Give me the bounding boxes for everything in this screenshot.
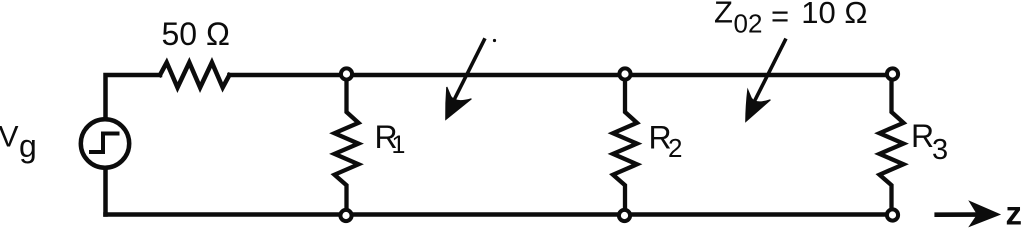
resistor 50 ohm (series source resistor) xyxy=(160,63,229,88)
node top R1 xyxy=(341,68,352,79)
svg-text:02: 02 xyxy=(734,8,763,38)
wire bottom rail xyxy=(106,212,886,217)
resistor R2 xyxy=(613,75,637,216)
node top R2 xyxy=(619,68,630,79)
resistor R1 xyxy=(335,75,359,216)
wire top rail right segment xyxy=(229,73,886,78)
svg-text:V: V xyxy=(0,120,19,153)
node bottom R2 xyxy=(619,210,630,221)
svg-text:z: z xyxy=(1006,195,1023,230)
svg-text:=: = xyxy=(771,0,789,33)
svg-text:g: g xyxy=(19,128,37,164)
resistor R3 xyxy=(880,75,904,216)
source step symbol xyxy=(89,134,120,153)
node bottom R3 xyxy=(887,209,898,220)
arrow to line section 1 xyxy=(446,38,485,119)
svg-text:2: 2 xyxy=(668,133,682,163)
z axis arrow xyxy=(934,201,999,226)
svg-text:50 Ω: 50 Ω xyxy=(162,16,230,52)
svg-text:R: R xyxy=(911,118,934,154)
svg-text:Z: Z xyxy=(714,0,733,30)
svg-text:10 Ω: 10 Ω xyxy=(801,0,867,30)
node top R3 xyxy=(887,68,898,79)
node bottom R1 xyxy=(340,210,351,221)
wire top-left corner / source top lead xyxy=(106,75,161,117)
svg-text:1: 1 xyxy=(392,131,406,159)
voltage source Vg circle xyxy=(81,119,129,167)
wire source bottom lead xyxy=(103,169,108,215)
speck near arrow 1 xyxy=(493,39,496,42)
svg-text:3: 3 xyxy=(932,134,948,166)
arrow to line section 2 xyxy=(746,39,786,122)
